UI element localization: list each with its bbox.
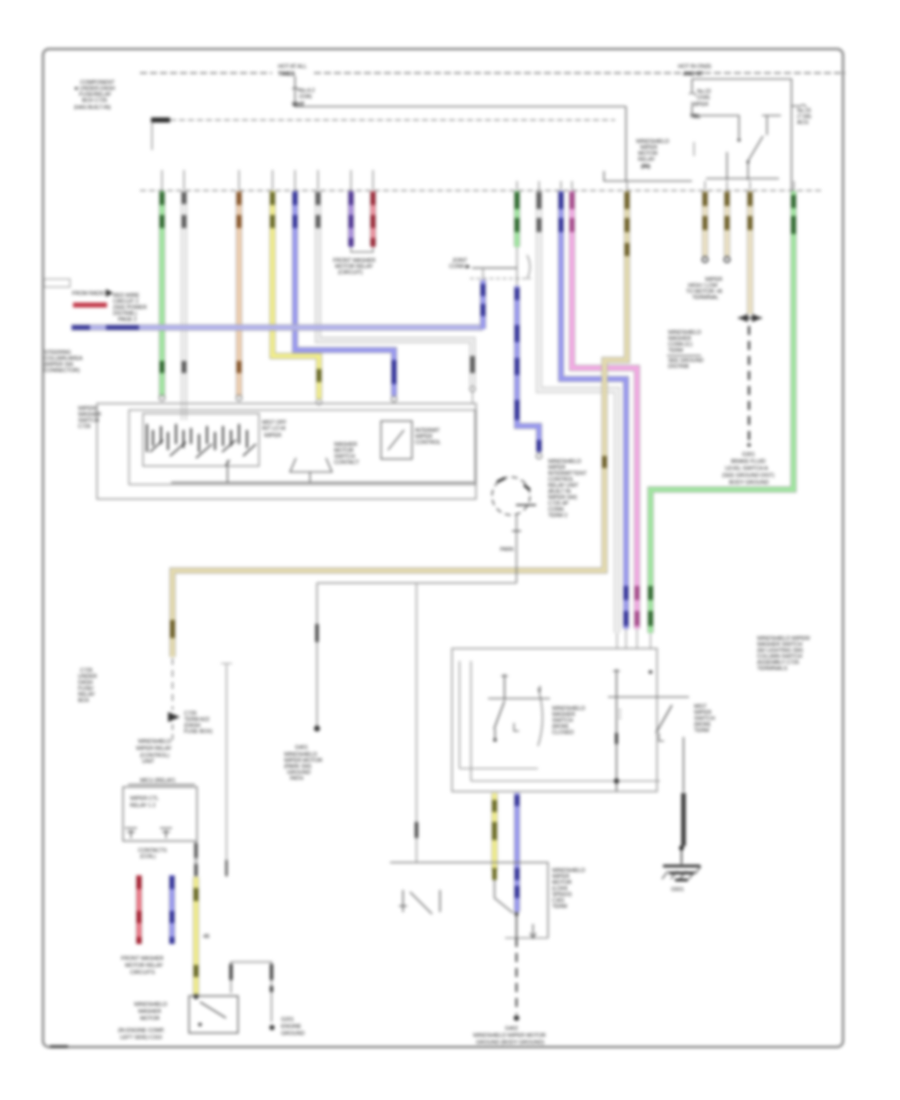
svg-text:WIPER CTL: WIPER CTL [130, 796, 159, 802]
wire stub below dashed box [151, 122, 153, 150]
wire W23 RED lower-left [136, 875, 142, 944]
label: intermittent relay text block right of ring [548, 459, 587, 519]
box U1 inner [129, 410, 475, 485]
switch SW1 common drop to bottom rail [227, 460, 229, 483]
fuse box outline (under-dash) [295, 106, 626, 108]
wire W6 GRY x=318 jog to 472 [318, 191, 475, 404]
wire W22 thin vertical x=416.5 [416, 583, 418, 862]
wire W4 YEL x=272.5 jog to 319 [273, 191, 322, 405]
svg-text:UNIT: UNIT [142, 759, 155, 765]
label: intermittent text above header [136, 739, 172, 765]
wire W1 GRN x=162 [159, 191, 165, 401]
dashed inner fusebox top [151, 118, 170, 123]
wire: loop from motor box to right leg [231, 962, 275, 1030]
svg-text:WIPER: WIPER [264, 433, 281, 439]
wire: SW3 leg to box bottom [683, 744, 685, 792]
fuse F1 symbol [292, 88, 299, 91]
svg-text:G401: G401 [295, 745, 308, 751]
svg-text:AND ST: AND ST [683, 72, 704, 78]
svg-text:ACG: ACG [797, 120, 808, 126]
ground G2 symbol [662, 850, 701, 893]
box U4: bottom center connector box [390, 863, 548, 939]
svg-text:LEVEL SWITCH A: LEVEL SWITCH A [725, 466, 768, 472]
wire: dashed continuation below splice to ground [748, 326, 750, 442]
svg-text:CONN ▶: CONN ▶ [449, 264, 471, 270]
svg-text:CONNECTOR): CONNECTOR) [44, 368, 80, 374]
label: right of loop [281, 1017, 305, 1037]
svg-text:MOTOR RELAY: MOTOR RELAY [125, 963, 163, 969]
switch SW1 multi-position contact cluster [147, 424, 247, 452]
label: splice note with leader [667, 330, 704, 370]
svg-text:HOT IN ON(II): HOT IN ON(II) [678, 64, 711, 70]
label: washer switch text [552, 706, 585, 736]
svg-text:G402: G402 [505, 1026, 518, 1032]
svg-text:(15A): (15A) [697, 95, 710, 101]
bottom border page tick [50, 1045, 68, 1048]
label: washer motor left text [134, 1002, 167, 1022]
connector arrow A22 [168, 712, 180, 722]
wire W21 GRY x=317 down to ground dot [314, 583, 320, 732]
label: NOT USED under tan stubs [686, 277, 723, 301]
svg-text:(SEE GROUND DIST): (SEE GROUND DIST) [722, 473, 774, 479]
svg-text:(CIRCUIT): (CIRCUIT) [338, 270, 363, 276]
svg-text:(COIL): (COIL) [140, 854, 156, 860]
label: U4 right text [552, 868, 585, 910]
svg-text:(10A): (10A) [299, 94, 312, 100]
wire W19 TAN x=750 to splice arrow [747, 191, 753, 314]
svg-text:FUSE BOX): FUSE BOX) [184, 729, 213, 735]
svg-text:MOTOR: MOTOR [140, 1016, 160, 1022]
switch SW2 washer switch [488, 674, 550, 742]
svg-text:MICU (RELAY): MICU (RELAY) [140, 778, 175, 784]
ground G1 text + symbol [722, 452, 774, 493]
wire W24 BLU lower-left [169, 875, 175, 944]
bottom rail inside box [171, 482, 474, 484]
wire W12 BLU x=517 lower from splice, jog to 539 ring [517, 286, 542, 459]
label: pedestal text [334, 442, 360, 466]
svg-text:CONTACT: CONTACT [334, 460, 360, 466]
wire: fuse F2 to relay coil [692, 106, 739, 138]
svg-text:CLOSED: CLOSED [552, 730, 574, 736]
svg-text:DISTRIB: DISTRIB [668, 364, 689, 370]
wire W20 GRN x=794 long, jog left to 650 [651, 191, 794, 648]
svg-text:PAGE 2: PAGE 2 [118, 317, 137, 323]
label: U3 right outside label [757, 636, 811, 672]
label: right of SW3 [694, 704, 715, 734]
arrow mark below U4 right [530, 924, 536, 938]
svg-text:WIPER RELAY: WIPER RELAY [136, 746, 172, 752]
svg-text:HOT AT ALL: HOT AT ALL [278, 64, 307, 70]
svg-text:WIPER: WIPER [691, 102, 708, 108]
svg-text:BRAKE FLUID: BRAKE FLUID [731, 459, 766, 465]
splice S1 joint connector [449, 247, 531, 286]
svg-text:C726: C726 [78, 424, 91, 430]
wire W28 BLU below U3 [514, 793, 520, 912]
fuse F2 symbol [689, 93, 696, 96]
wire: cam to horizontal rail [516, 514, 518, 583]
relay K1 wiper motor relay switch blade [748, 136, 763, 161]
wire W2 WHT x=184 [181, 191, 187, 420]
wire W14 BLU x=561 jog to 626 [561, 191, 626, 648]
label: switch box left label [78, 406, 101, 430]
label: under red/blue pair [121, 956, 164, 976]
svg-text:WASHER: WASHER [138, 1009, 161, 1015]
wire W16 TAN x=627 long run to lower-left [173, 191, 628, 657]
washer pedestal symbol [290, 458, 332, 472]
wire W27 YEL below U3 [491, 793, 497, 880]
label: under dot text left-bottom-mid [284, 745, 322, 782]
wire W3 ORN x=239 [236, 191, 242, 401]
svg-text:G501: G501 [671, 887, 684, 893]
svg-text:FRONT WASHER: FRONT WASHER [121, 956, 164, 962]
wire W13 WHT x=539 jog to 617 [539, 191, 617, 648]
label: positions text inside box [262, 420, 287, 439]
svg-text:TERM 2: TERM 2 [548, 513, 567, 519]
wire: hot-at-all-times dashed bus [140, 72, 272, 74]
svg-text:BOX: BOX [78, 698, 90, 704]
wire: bus from fuse F1 to fuse box [295, 106, 626, 108]
node: purple/red pair bracket + label [351, 248, 373, 252]
wire W10 GRN x=517 upper [514, 191, 520, 247]
wire W5 BLU x=295 jog to 394 [295, 191, 397, 402]
svg-text:WINDSHIELD: WINDSHIELD [134, 1002, 167, 1008]
relay K1 pin leads [726, 152, 728, 180]
svg-text:(IN): (IN) [641, 164, 650, 170]
svg-text:GROUND (BODY GROUND): GROUND (BODY GROUND) [476, 1040, 544, 1046]
svg-text:WHT: WHT [292, 102, 305, 108]
svg-text:GROUND: GROUND [281, 1031, 305, 1037]
fuse F3 on right leg [792, 105, 807, 107]
svg-text:LEFT SIDE) C310: LEFT SIDE) C310 [120, 1035, 162, 1041]
svg-text:CIRCUITS: CIRCUITS [130, 970, 155, 976]
wire: horizontal rail y=583 [317, 582, 517, 584]
svg-text:G301: G301 [742, 452, 755, 458]
svg-text:INT LO HI: INT LO HI [262, 426, 286, 432]
cam M1: park switch cam dashed circle [492, 477, 536, 515]
connector row C1 dashed line [140, 190, 824, 192]
box: INT rheostat small rect [381, 421, 412, 459]
svg-text:BODY GROUND: BODY GROUND [729, 480, 769, 486]
label: bottom center text [473, 1026, 546, 1046]
small box on left border [44, 279, 70, 287]
svg-text:CONTROL: CONTROL [415, 440, 441, 446]
label: component legend top-left [73, 80, 115, 111]
label: INT unit text [415, 428, 441, 446]
wire W7 PUR x=351 short [348, 191, 354, 247]
wire W18 TAN short x=727 [724, 191, 730, 262]
svg-text:TERM: TERM [668, 348, 684, 354]
relay contacts inside U2 [125, 828, 172, 838]
box U1: wiper/washer switch outer [97, 404, 476, 500]
svg-text:WINDSHIELD WIPER MOTOR: WINDSHIELD WIPER MOTOR [473, 1033, 546, 1039]
switch SW3 mist/int switch [608, 669, 689, 791]
svg-text:RELAY 1 2: RELAY 1 2 [130, 803, 155, 809]
svg-text:(HAS BUILT-IN): (HAS BUILT-IN) [74, 105, 111, 111]
svg-text:(IN ENGINE COMP,: (IN ENGINE COMP, [118, 1028, 165, 1034]
wire W25 YEL from U2 to washer motor [193, 841, 198, 999]
wire W26 BLK ground wire [679, 793, 684, 850]
box U3: washer/intermittent switch assembly [452, 649, 657, 792]
switch SW4 inside U4 [399, 890, 440, 914]
wire: dashed dark below junction to ground dot [516, 916, 518, 938]
wire W11 BLU x=483 from splice to horizontal [480, 280, 486, 329]
wire: dashed continuation below tan W16 [172, 658, 174, 710]
svg-text:FROM RADIO: FROM RADIO [72, 291, 107, 297]
wire: yellow merges into blue [495, 880, 514, 913]
motor M2: washer motor box [189, 996, 238, 1033]
svg-text:TERM: TERM [694, 728, 710, 734]
curved range arrow in U3 [538, 688, 543, 746]
svg-text:ENGINE: ENGINE [281, 1024, 302, 1030]
box U2 body [123, 787, 197, 841]
svg-text:PATH: PATH [290, 776, 303, 782]
bus bars inside U3 [459, 661, 461, 769]
label: left column connector text [78, 668, 97, 704]
svg-text:PARK: PARK [500, 547, 514, 553]
svg-text:WINDSHIELD: WINDSHIELD [138, 739, 171, 745]
svg-text:TERMINAL: TERMINAL [692, 295, 719, 301]
wire W17 TAN short x=705 [702, 191, 708, 262]
fuse F1 No.4-2 vertical lead [294, 76, 296, 107]
svg-text:RELAY: RELAY [638, 157, 655, 163]
wire W8 RED x=373 short [370, 191, 376, 247]
label: washer motor bottom text [118, 1028, 165, 1041]
label: left RED feed note [72, 289, 147, 323]
svg-text:TERMINALS: TERMINALS [757, 666, 788, 672]
label: left margin steering column [44, 350, 83, 374]
box: contact cluster inner rect [143, 414, 259, 467]
svg-text:TIMES: TIMES [278, 72, 295, 78]
svg-text:G201: G201 [281, 1017, 294, 1023]
junction on bottom rail [614, 778, 619, 783]
wire W15 PNK x=572 jog to 637 [572, 191, 637, 648]
wire: top feed to relay and right branch [692, 79, 792, 190]
svg-text:4B: 4B [203, 934, 210, 940]
svg-text:TERM: TERM [552, 904, 568, 910]
connector pin stubs above row [162, 170, 794, 190]
svg-text:BOX C725: BOX C725 [82, 98, 107, 104]
wire W9 long BLU horizontal y=328 [71, 324, 483, 330]
splice S2 arrow symbol [738, 314, 762, 322]
wire: thin line x=226.5 [226, 663, 228, 877]
